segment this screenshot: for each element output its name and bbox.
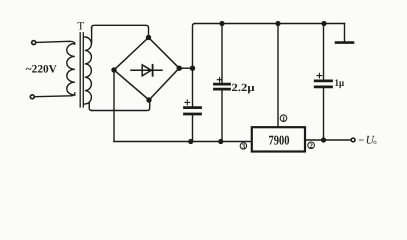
pin label 3 <box>240 143 246 151</box>
secondary bottom lead <box>89 103 92 111</box>
node: C1 bottom on rail <box>188 139 193 144</box>
capacitor C1 (filter) <box>192 68 194 141</box>
bridge rectifier diamond <box>114 38 179 101</box>
wire: bridge right corner to junction <box>179 67 192 69</box>
wire: bottom terminal to primary <box>35 93 75 97</box>
diode inside bridge <box>131 65 162 76</box>
node: pin1 wire on top rail <box>275 21 280 26</box>
svg-text:1μ: 1μ <box>335 78 345 89</box>
wire AC2: secondary bottom to bridge bottom <box>92 102 150 111</box>
input terminal top <box>32 41 36 45</box>
node: C2 top on rail <box>219 21 224 26</box>
node: C3 top on rail <box>321 21 326 26</box>
transformer T primary winding <box>67 44 75 96</box>
wire: top rail <box>195 23 345 25</box>
wire: 7900 pin 2 to output <box>305 139 350 141</box>
wire: bridge left corner down to bottom rail <box>113 70 115 142</box>
node: bridge right <box>177 66 182 71</box>
wire AC1: secondary top to bridge top <box>92 25 149 35</box>
capacitor C2 2.2u <box>221 24 223 142</box>
secondary top lead <box>91 27 93 43</box>
input terminal bottom <box>30 95 34 99</box>
svg-text:~220V: ~220V <box>26 63 58 75</box>
pin label 2 <box>308 142 315 150</box>
ground <box>336 41 353 44</box>
svg-text:2.2μ: 2.2μ <box>232 82 256 94</box>
pin label 1 <box>280 115 287 123</box>
svg-text:3: 3 <box>242 143 246 151</box>
wire: bottom rail to 7900 pin 3 <box>114 141 252 143</box>
transformer secondary winding <box>85 37 92 104</box>
wire: top terminal to primary <box>36 41 74 44</box>
svg-text:−: − <box>358 135 364 146</box>
svg-text:2: 2 <box>309 142 313 150</box>
node: bridge left <box>111 67 116 72</box>
output terminal <box>351 138 355 142</box>
transformer core <box>80 33 83 107</box>
regulator U1 7900 <box>252 127 305 151</box>
svg-text:o: o <box>373 139 377 146</box>
node: junction right of bridge <box>190 66 195 71</box>
svg-text:7900: 7900 <box>269 133 290 148</box>
svg-text:T: T <box>77 20 84 32</box>
node: C2 bottom on rail <box>218 139 223 144</box>
node: bridge top <box>146 35 151 40</box>
capacitor C3 1u <box>323 24 325 141</box>
node: C3 bottom junction <box>321 137 326 142</box>
node: bridge bottom <box>146 97 151 102</box>
wire: top rail to ground <box>344 24 346 42</box>
wire: top rail down to 7900 pin 1 <box>277 24 279 128</box>
wire: junction up to top rail <box>193 24 196 69</box>
svg-text:1: 1 <box>282 115 286 123</box>
